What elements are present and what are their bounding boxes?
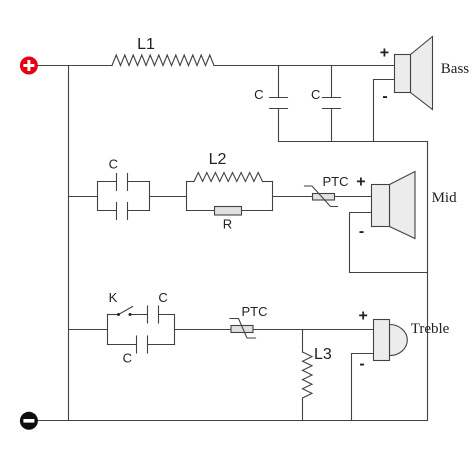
- svg-text:Treble: Treble: [411, 321, 450, 337]
- resistor R: [215, 207, 242, 216]
- wire cap group to L2 block: [150, 196, 187, 198]
- inductor L2 with resistor R parallel block: [187, 173, 273, 211]
- wire right bus vertical: [427, 142, 429, 421]
- svg-text:C: C: [254, 87, 263, 102]
- wire bottom rail: [37, 420, 428, 422]
- wire bass minus leg: [374, 80, 395, 142]
- svg-text:K: K: [109, 290, 118, 305]
- svg-text:C: C: [311, 87, 320, 102]
- wire mid minus leg: [350, 213, 428, 273]
- wire treble branch from left bus to K/C group: [69, 329, 108, 331]
- capacitor C (bass, left): [270, 66, 288, 142]
- svg-text:L2: L2: [209, 151, 227, 168]
- svg-text:PTC: PTC: [242, 304, 268, 319]
- negative terminal: [20, 412, 38, 430]
- svg-text:Mid: Mid: [432, 190, 458, 206]
- capacitor group C parallel (mid): [98, 174, 150, 220]
- wire K/C group to PTC (treble): [175, 329, 232, 331]
- inductor L1: [112, 55, 214, 66]
- svg-text:-: -: [359, 356, 364, 373]
- wire mid branch from left bus to cap group: [69, 196, 98, 198]
- wire left bus vertical: [68, 66, 70, 421]
- wire top rail from L1 to bass speaker: [214, 65, 395, 67]
- svg-text:C: C: [123, 351, 132, 366]
- svg-text:R: R: [223, 217, 232, 232]
- svg-text:-: -: [359, 223, 364, 240]
- switch K and capacitor group (treble): [108, 306, 175, 353]
- wire caps bottom to right bus: [279, 141, 428, 143]
- wire top rail from + terminal to L1: [37, 65, 112, 67]
- positive terminal: [20, 57, 38, 75]
- mid speaker: [372, 172, 416, 239]
- switch contact dots: [117, 313, 120, 316]
- wire PTC to treble speaker: [253, 329, 374, 331]
- svg-text:C: C: [109, 157, 118, 172]
- bass speaker: [395, 37, 433, 110]
- svg-text:+: +: [356, 174, 365, 191]
- wire L2 block to PTC (mid): [273, 196, 313, 198]
- PTC thermistor (treble): [230, 319, 256, 339]
- wire PTC to mid speaker: [335, 196, 372, 198]
- svg-text:+: +: [359, 308, 368, 325]
- svg-text:C: C: [158, 290, 167, 305]
- svg-text:+: +: [380, 45, 389, 62]
- capacitor C (bass, right): [323, 66, 341, 142]
- svg-text:L1: L1: [137, 36, 155, 53]
- svg-text:L3: L3: [314, 346, 332, 363]
- PTC thermistor (mid): [305, 186, 338, 207]
- svg-text:Bass: Bass: [441, 61, 470, 77]
- treble speaker: [374, 320, 408, 361]
- svg-text:PTC: PTC: [323, 174, 349, 189]
- wire treble minus leg: [352, 354, 374, 421]
- inductor L3 vertical: [303, 330, 313, 421]
- svg-text:-: -: [382, 88, 387, 105]
